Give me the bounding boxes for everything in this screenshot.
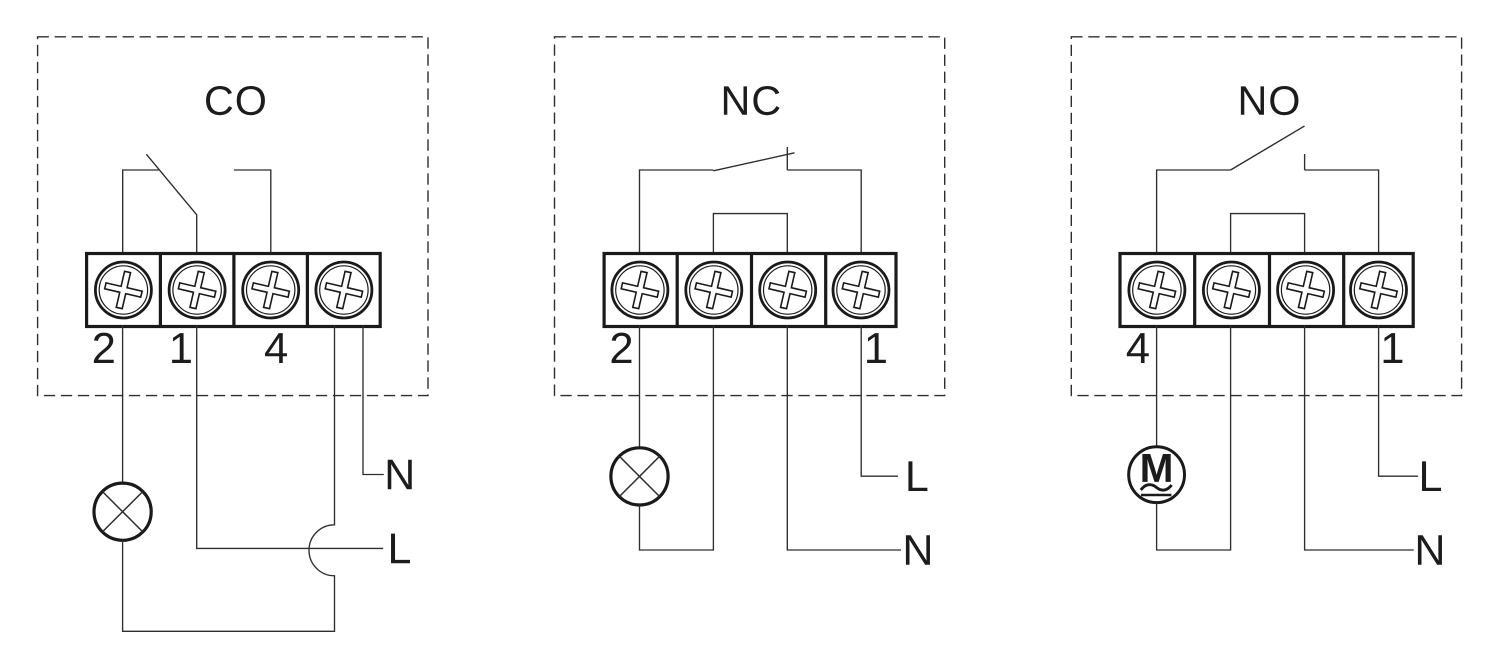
terminal block X3 — [1120, 254, 1413, 327]
switch contact tick — [1304, 154, 1306, 170]
net label N — [906, 535, 930, 565]
pin number 4 — [1127, 333, 1149, 363]
wire L supply — [1379, 325, 1418, 476]
screw terminal a — [1203, 262, 1259, 318]
screw terminal 4 — [243, 262, 299, 318]
net label L — [908, 461, 927, 491]
motor M1 (fan) — [1129, 447, 1185, 503]
screw terminal 2 — [612, 262, 668, 318]
net label L — [1422, 461, 1441, 491]
wire from terminal 2 up to switch contact — [123, 170, 159, 255]
switch blade S3 (open) — [1231, 126, 1305, 170]
wire lamp return to terminal N with crossover hop — [123, 325, 335, 631]
terminal block X1 — [87, 254, 381, 327]
pin number 2 — [612, 333, 632, 363]
pin number 2 — [94, 333, 114, 363]
wire N supply — [363, 325, 384, 475]
lamp E1 — [94, 483, 151, 540]
screw terminal a — [686, 262, 742, 318]
wire from terminal 4 up to switch — [1157, 170, 1231, 255]
wire motor return to middle terminal — [1157, 325, 1231, 550]
wire NO contact bracket to terminal 4 — [234, 170, 271, 255]
wire N supply — [787, 325, 901, 550]
label CO — [206, 86, 232, 115]
wire from terminal 2 up to switch — [640, 170, 714, 255]
wire terminal 2 down to lamp — [122, 325, 124, 483]
screw terminal 2 — [95, 262, 151, 318]
net label N — [1418, 535, 1442, 565]
terminal block X2 — [604, 254, 896, 327]
pin number 1 — [1384, 333, 1403, 363]
screw terminal 1 — [1351, 262, 1407, 318]
wire L supply — [861, 325, 898, 476]
label NO — [1241, 86, 1264, 114]
screw terminal N — [316, 262, 372, 318]
wire lamp return to middle terminal — [640, 325, 714, 550]
wire terminal 4 down to motor — [1156, 325, 1158, 446]
screw terminal 1 — [833, 262, 889, 318]
label NC — [724, 86, 747, 114]
wire L supply from terminal 1 — [197, 325, 384, 548]
screw terminal 4 — [1129, 262, 1185, 318]
lamp E2 — [611, 448, 668, 505]
pin number 1 — [172, 333, 191, 363]
pin number 1 — [867, 333, 886, 363]
wire N supply — [1305, 325, 1414, 550]
dashed enclosure box CO — [38, 37, 428, 396]
wire switch to terminal 1 — [787, 170, 861, 255]
net label L — [391, 534, 410, 564]
dashed enclosure box NC — [555, 37, 945, 396]
wire terminal 2 down to lamp — [639, 325, 641, 448]
switch contact tick — [786, 147, 788, 170]
screw terminal b — [1278, 262, 1334, 318]
dashed enclosure box NO — [1071, 37, 1461, 396]
jumper bracket between middle terminals — [713, 214, 787, 255]
pin number 4 — [265, 333, 287, 363]
screw terminal b — [760, 262, 816, 318]
net label N — [388, 460, 412, 490]
switch blade S2 (closed) — [713, 153, 794, 171]
jumper bracket between middle terminals — [1231, 214, 1305, 255]
screw terminal 1 — [169, 262, 225, 318]
switch blade S1 (changeover) — [146, 154, 196, 255]
wire switch to terminal 1 — [1305, 170, 1379, 255]
